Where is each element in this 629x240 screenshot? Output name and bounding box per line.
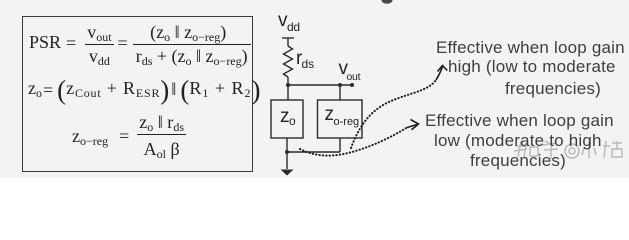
svg-text:out: out bbox=[347, 71, 361, 83]
svg-text:o-reg: o-reg bbox=[334, 116, 360, 128]
svg-text:dd: dd bbox=[287, 20, 300, 34]
svg-text:o: o bbox=[289, 114, 296, 128]
svg-text:ds: ds bbox=[302, 57, 315, 71]
